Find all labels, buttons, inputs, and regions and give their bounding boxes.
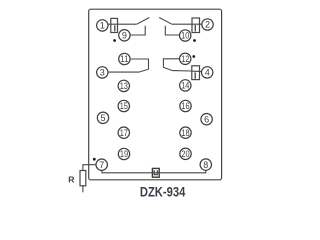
svg-text:6: 6 [204,114,209,124]
svg-text:1: 1 [100,21,105,31]
svg-text:12: 12 [181,54,189,64]
wire terminal 12 corner [163,59,179,68]
svg-text:9: 9 [122,31,127,41]
fixed contact of terminal 9 [130,26,145,35]
terminal 8 [200,159,211,170]
polarity dot near terminal 10 [193,39,196,42]
label R [68,174,74,184]
svg-text:3: 3 [100,68,105,78]
svg-text:4: 4 [205,68,210,78]
link box U on wire 7-8 [152,168,159,177]
svg-text:13: 13 [120,81,128,91]
terminal 1 [97,20,108,31]
terminal 20 [180,148,191,159]
wire terminal 7 to terminal 8 [102,170,206,172]
coil at terminal 2 [192,18,200,33]
resistor R [80,171,86,186]
svg-text:8: 8 [203,160,208,170]
svg-text:2: 2 [205,20,210,30]
wire coil to terminal 2 [172,23,202,25]
svg-text:14: 14 [181,81,189,91]
terminal 10 [180,30,191,41]
polarity dot near terminal 12 [192,55,195,58]
terminal 7 [96,159,107,170]
svg-text:10: 10 [181,31,189,41]
label DZK-934 [140,184,186,200]
contact blade terminals 1-9 [137,18,150,25]
svg-text:DZK-934: DZK-934 [140,184,186,200]
wire below resistor R [82,186,84,193]
terminal 18 [180,127,191,138]
wire coil to terminal 4 [192,70,202,72]
terminal 17 [118,127,129,138]
svg-text:16: 16 [181,101,189,111]
terminal 9 [119,30,130,41]
terminal 14 [180,80,191,91]
coil at terminal 4 [192,66,200,80]
wire terminal 7 to resistor R [83,165,96,171]
polarity dot near terminal 7 [93,158,96,161]
svg-text:7: 7 [99,160,104,170]
svg-text:17: 17 [120,128,128,138]
terminal 4 [202,67,213,78]
wire terminal 11 corner [130,59,148,69]
terminal 19 [118,148,129,159]
contact blade terminals 3-11 [108,69,148,72]
fixed contact of terminal 10 [165,26,179,35]
terminal 6 [201,114,212,125]
contact blade terminals 2-10 [159,18,172,25]
svg-text:19: 19 [120,149,128,159]
coil at terminal 1 [111,18,118,32]
svg-text:5: 5 [100,113,105,123]
relay case outline [89,9,222,180]
contact blade terminals 12-4 [163,67,191,71]
terminal 11 [119,53,130,64]
svg-text:R: R [68,174,74,184]
polarity dot near terminal 9 [113,39,116,42]
terminal 3 [97,67,108,78]
svg-text:11: 11 [120,54,128,64]
svg-text:15: 15 [120,101,128,111]
svg-text:20: 20 [181,149,189,159]
terminal 12 [180,53,191,64]
terminal 13 [118,80,129,91]
terminal 16 [180,100,191,111]
wire terminal 1 to coil [108,23,137,25]
svg-text:18: 18 [181,128,189,138]
terminal 5 [97,112,108,123]
terminal 15 [118,100,129,111]
terminal 2 [202,19,213,30]
